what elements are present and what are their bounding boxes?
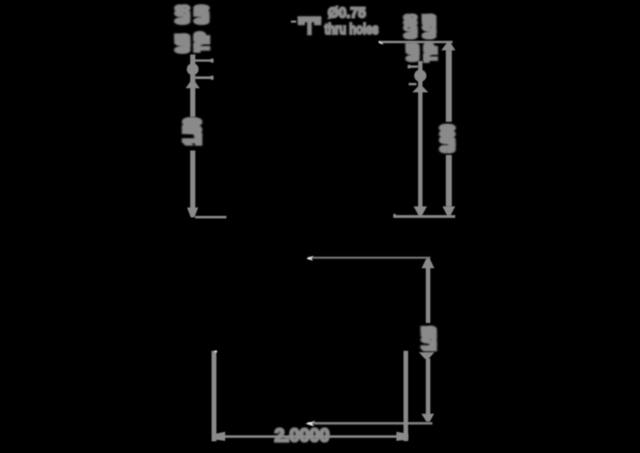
svg-text:0.938: 0.938 [402, 15, 419, 39]
lower vertical dimension stem upper segment [426, 268, 431, 324]
left dimension stem upper segment [190, 55, 195, 117]
lower top thin line A [308, 257, 431, 259]
svg-text:1.625: 1.625 [420, 327, 438, 351]
right dimension stem 2 lower segment [446, 155, 452, 206]
svg-text:2.0000: 2.0000 [274, 426, 329, 446]
svg-text:thru holes: thru holes [324, 20, 378, 37]
svg-text:TYP: TYP [193, 32, 211, 51]
leader dash for T label [291, 21, 296, 23]
svg-text:"T": "T" [298, 14, 321, 38]
lower vertical mid down arrowhead [419, 352, 435, 359]
white nub at top of lower left extension line [215, 351, 218, 353]
left up arrowhead [186, 81, 200, 89]
left down arrowhead [187, 208, 198, 218]
svg-text:TYP: TYP [422, 43, 439, 61]
right top extension line [379, 41, 453, 43]
lower left extension line [212, 351, 217, 442]
right dimension stem 1 [418, 61, 422, 207]
white origin mark on line A [306, 256, 313, 261]
left extension tick 2 [195, 76, 211, 79]
right bottom extension line [393, 215, 455, 218]
right bottom extension line left tick [393, 214, 396, 217]
left dimension stem lower segment [190, 151, 195, 208]
right tick 1 end dot [408, 65, 411, 69]
right tick 1 [409, 65, 418, 67]
bottom dimension left arrowhead [216, 432, 226, 441]
svg-text:3.000: 3.000 [439, 125, 458, 152]
right up arrowhead on stem 1 [412, 86, 428, 93]
left extension tick 1 end dot [211, 59, 214, 63]
svg-text:0.25: 0.25 [173, 34, 191, 52]
bottom width dimension line [218, 435, 398, 438]
white origin mark on right top extension line [379, 41, 384, 45]
lower vertical dimension stem lower segment [426, 359, 431, 415]
svg-text:0.25: 0.25 [404, 44, 421, 61]
svg-text:0.625: 0.625 [421, 15, 438, 39]
hole circle left [187, 63, 199, 75]
svg-text:0.50: 0.50 [193, 5, 211, 23]
lower right extension line [404, 351, 409, 441]
right dimension stem 2 upper segment [446, 50, 452, 122]
bottom dimension right arrowhead [396, 432, 408, 441]
left extension tick 2 end dot [211, 76, 214, 80]
right stem 2 down arrowhead [442, 206, 455, 215]
left extension tick 1 [195, 59, 211, 61]
white origin mark on line B [305, 421, 315, 427]
hole circle right [414, 70, 426, 82]
left bottom extension line [195, 216, 226, 219]
lower vertical dimension down arrowhead [421, 414, 434, 422]
lower vertical dimension up arrowhead [422, 259, 435, 269]
right stem 2 up arrowhead [441, 43, 455, 51]
svg-text:1.50: 1.50 [179, 118, 204, 145]
right stem 1 down arrowhead [414, 206, 427, 215]
lower bottom thin line B [308, 422, 433, 425]
svg-text:Ø0.75: Ø0.75 [328, 5, 366, 21]
svg-text:0.88: 0.88 [173, 5, 191, 23]
right tick 2 [409, 83, 417, 85]
